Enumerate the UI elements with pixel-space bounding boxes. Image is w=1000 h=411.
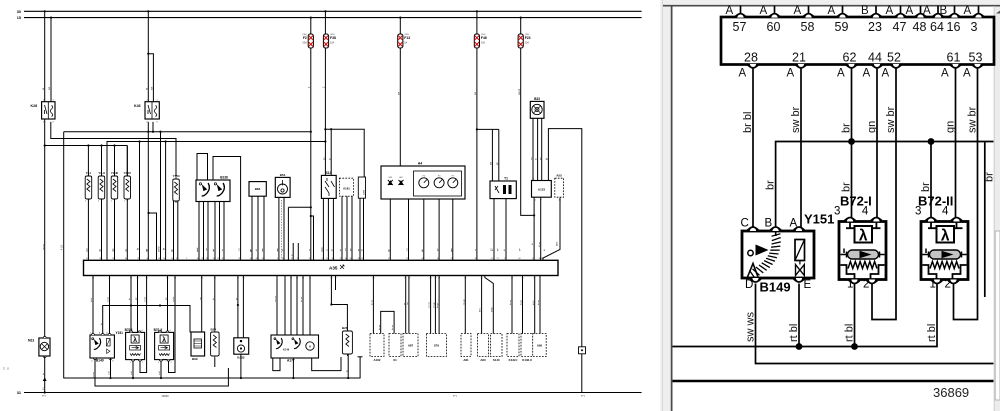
svg-text:2: 2 <box>170 362 171 364</box>
svg-text:S79: S79 <box>434 344 440 348</box>
ground connection point <box>579 347 586 354</box>
svg-text:53: 53 <box>174 278 176 280</box>
wire S79 to bar <box>429 276 440 334</box>
wire B28 to bottom run <box>345 354 349 379</box>
svg-text:H63: H63 <box>389 177 392 179</box>
connector A top pin 57 <box>726 5 747 34</box>
svg-text:31: 31 <box>17 391 21 395</box>
svg-text:M13: M13 <box>28 339 34 343</box>
svg-text:sw: sw <box>474 92 477 95</box>
wire stub 139.5 <box>137 142 140 261</box>
wire pin53 to B72-II pin2 <box>169 276 177 373</box>
connector A (control unit multi-pin connector) <box>721 17 994 65</box>
svg-text:br: br <box>100 323 103 325</box>
wire B28 to bar <box>330 276 347 332</box>
svg-text:br: br <box>765 180 777 190</box>
injector valve Y3-III <box>111 171 118 202</box>
svg-text:12: 12 <box>290 278 292 280</box>
wire Y184 to bar <box>171 201 178 260</box>
motor M13 <box>28 337 50 358</box>
wire B24 stub down <box>214 358 216 367</box>
Y151 top pins C B A <box>741 218 805 232</box>
svg-text:rt bl: rt bl <box>844 324 856 342</box>
svg-text:45: 45 <box>475 258 477 260</box>
B72-I top pins 3 4 <box>834 206 882 222</box>
wire B72-I pin1 (rt bl) <box>844 284 858 350</box>
svg-text:6: 6 <box>276 278 277 280</box>
svg-text:br ws: br ws <box>391 324 394 330</box>
schematic page divider <box>660 0 664 411</box>
connector A top pin 64 <box>923 5 944 34</box>
connector A162 <box>370 334 384 363</box>
left page background <box>0 0 660 411</box>
fuse F2 <box>302 34 313 48</box>
svg-text:S13: S13 <box>326 171 332 175</box>
svg-text:1: 1 <box>847 279 853 291</box>
switch S140 <box>491 334 503 363</box>
svg-text:5: 5 <box>322 258 323 260</box>
svg-text:3: 3 <box>332 258 333 260</box>
svg-text:58: 58 <box>350 258 352 260</box>
svg-text:A4: A4 <box>418 162 422 166</box>
wire bridge over B138 right <box>213 157 241 261</box>
wire A4 to bar <box>387 199 453 260</box>
svg-text:B24: B24 <box>211 328 217 332</box>
svg-text:2: 2 <box>505 202 506 204</box>
Y151 bottom pins D E / B149 label <box>745 278 812 295</box>
svg-text:62: 62 <box>518 258 520 260</box>
wire rt bl bottom run <box>63 357 362 379</box>
wire B72-II pin1 down <box>158 361 161 378</box>
svg-text:4: 4 <box>862 206 869 218</box>
solenoid valve + potentiometer Y151/B149 <box>742 231 814 278</box>
wire run S13 to S280 <box>324 128 365 177</box>
svg-text:52: 52 <box>146 278 148 280</box>
svg-text:48: 48 <box>158 258 160 260</box>
svg-text:4: 4 <box>141 330 142 332</box>
svg-text:MFD: MFD <box>491 307 493 312</box>
svg-text:sw: sw <box>397 92 400 95</box>
svg-text:br: br <box>535 158 538 160</box>
svg-text:21: 21 <box>792 51 806 65</box>
connector A top pin 16 <box>940 5 961 34</box>
relay K132-II <box>521 334 533 363</box>
svg-text:20: 20 <box>217 258 219 260</box>
svg-text:A162: A162 <box>374 358 381 362</box>
svg-text:sw br: sw br <box>790 106 802 133</box>
wire B132 to bar <box>235 276 244 338</box>
switch S13 <box>321 171 336 199</box>
svg-text:27: 27 <box>201 258 203 260</box>
svg-text:B: B <box>861 5 869 17</box>
wire A177 bottom stubs <box>273 357 341 378</box>
svg-text:1: 1 <box>930 279 936 291</box>
control unit bar A35 <box>84 260 559 275</box>
svg-text:sw ws: sw ws <box>429 301 431 308</box>
sensor B83 <box>249 182 266 197</box>
svg-text:34: 34 <box>302 278 304 280</box>
svg-text:F2: F2 <box>303 36 307 40</box>
svg-text:rt bl: rt bl <box>108 371 111 375</box>
throttle unit A177 <box>271 335 319 363</box>
connector A bottom pin 52 <box>882 51 902 80</box>
fuse F13 <box>398 34 411 48</box>
wire rt bl common line <box>673 284 938 347</box>
svg-text:ws gn: ws gn <box>463 299 465 305</box>
svg-text:16: 16 <box>947 20 961 34</box>
svg-text:56: 56 <box>206 258 208 260</box>
fuse F23 <box>518 34 531 48</box>
connector A top pin 58 <box>794 5 815 34</box>
svg-text:sw: sw <box>345 248 347 251</box>
wire B54 to bar shielded <box>277 197 284 260</box>
wire K46 pin to Y184 via run <box>152 122 154 133</box>
wire bus15 through F23 to A123 branch <box>518 17 535 217</box>
valve Y151 / potentiometer B149 <box>90 331 123 363</box>
wire A95 to bar <box>532 276 541 334</box>
svg-text:15: 15 <box>17 16 21 20</box>
connector A bottom pin 28 <box>739 51 759 80</box>
svg-text:20: 20 <box>361 258 363 260</box>
B72-II top pins 3 4 <box>915 206 962 222</box>
svg-text:39: 39 <box>511 278 513 280</box>
svg-text:63: 63 <box>256 258 258 260</box>
svg-text:26: 26 <box>358 258 360 260</box>
svg-text:(2B6): (2B6) <box>404 34 409 36</box>
svg-text:A: A <box>863 68 871 80</box>
svg-text:47: 47 <box>146 258 148 260</box>
svg-text:15A: 15A <box>481 42 486 45</box>
svg-text:A87: A87 <box>408 344 414 348</box>
svg-text:S280: S280 <box>363 189 365 195</box>
wire pin53 to B72-II pin2 (sw br) elbow <box>954 69 979 320</box>
svg-text:A81: A81 <box>463 358 469 362</box>
svg-text:28: 28 <box>744 51 758 65</box>
svg-text:73: 73 <box>242 278 244 280</box>
svg-text:44: 44 <box>136 278 138 280</box>
connector A161 <box>339 178 353 196</box>
svg-text:A: A <box>739 68 747 80</box>
svg-text:57: 57 <box>86 258 88 260</box>
svg-text:20: 20 <box>222 258 224 260</box>
svg-text:(2B6): (2B6) <box>481 34 486 36</box>
diagram bottom frame line <box>673 380 994 383</box>
svg-text:2: 2 <box>85 201 86 203</box>
wire br branch at right edge <box>984 142 996 298</box>
svg-text:70: 70 <box>309 258 311 260</box>
svg-text:52: 52 <box>887 51 901 65</box>
lambda probe B72-I <box>839 222 886 280</box>
svg-text:K28: K28 <box>31 104 38 108</box>
svg-text:br bl: br bl <box>532 300 535 305</box>
wire S13 to bar <box>321 198 334 260</box>
svg-text:46: 46 <box>422 258 424 260</box>
svg-text:sw: sw <box>451 248 453 251</box>
svg-text:sw: sw <box>239 248 241 251</box>
svg-text:17: 17 <box>497 258 499 260</box>
distributor B33 <box>530 97 544 118</box>
wire bridge A162 to X1 <box>378 311 394 333</box>
svg-text:21: 21 <box>108 278 110 280</box>
svg-text:gn: gn <box>945 121 957 133</box>
sensor B54 <box>275 173 290 197</box>
svg-text:57: 57 <box>533 278 535 280</box>
svg-text:62: 62 <box>130 278 132 280</box>
connector A top pin 47 <box>886 5 907 34</box>
injector valve Y3-II <box>98 171 105 202</box>
svg-text:br ws: br ws <box>371 299 374 305</box>
wire A81 to bar <box>463 276 466 334</box>
wire A63 to bar <box>479 276 483 334</box>
svg-text:4: 4 <box>942 206 949 218</box>
svg-text:sw br: sw br <box>107 297 110 302</box>
svg-text:37: 37 <box>345 258 347 260</box>
svg-text:br: br <box>221 249 224 251</box>
svg-text:br: br <box>163 248 166 250</box>
svg-text:23: 23 <box>137 258 139 260</box>
wire Y151 pin D (sw ws) to bottom run <box>745 284 994 364</box>
svg-text:A: A <box>787 68 795 80</box>
svg-text:11: 11 <box>404 278 406 280</box>
svg-text:br bl: br bl <box>742 112 754 133</box>
right zoom panel background <box>663 0 1000 411</box>
svg-text:A: A <box>923 5 931 17</box>
svg-text:sw: sw <box>151 87 154 90</box>
wire B138 to bar <box>196 202 224 261</box>
svg-text:gr: gr <box>357 249 360 251</box>
svg-text:B149: B149 <box>760 280 791 295</box>
wire K132-I to bar <box>509 276 513 334</box>
svg-text:1: 1 <box>124 177 125 179</box>
wire A162 to bar <box>371 276 375 334</box>
svg-text:br: br <box>841 182 853 192</box>
svg-text:60: 60 <box>125 258 127 260</box>
svg-text:3: 3 <box>834 206 840 218</box>
svg-text:57: 57 <box>430 278 432 280</box>
wire sw ws bottom run <box>93 358 228 386</box>
connector A63 <box>478 334 489 363</box>
svg-text:br gn: br gn <box>520 299 523 305</box>
fuse F46 <box>474 34 487 48</box>
svg-text:22: 22 <box>262 258 264 260</box>
svg-text:Y151: Y151 <box>804 212 834 227</box>
svg-text:br: br <box>491 249 494 251</box>
wire A123 over top to ground drop <box>546 129 582 393</box>
svg-text:2: 2 <box>111 201 112 203</box>
svg-text:C: C <box>741 218 749 230</box>
svg-text:Y151: Y151 <box>116 331 124 335</box>
B72-II bottom pins 1 2 <box>930 279 960 291</box>
svg-text:1: 1 <box>111 177 112 179</box>
scrollbar strip <box>994 6 1000 411</box>
svg-text:br ws: br ws <box>300 296 303 302</box>
svg-text:S140: S140 <box>493 358 500 362</box>
svg-text:39: 39 <box>434 278 436 280</box>
svg-text:27: 27 <box>291 258 293 260</box>
svg-text:H62: H62 <box>399 177 402 179</box>
wire bus30 through F38 to junction <box>323 10 327 129</box>
svg-text:2: 2 <box>863 279 869 291</box>
svg-text:br ws: br ws <box>378 324 381 330</box>
fuse F38 <box>323 34 336 48</box>
svg-text:2: 2 <box>504 258 505 260</box>
svg-text:2: 2 <box>98 201 99 203</box>
switch S79 <box>426 334 446 357</box>
connector A95 <box>533 334 547 357</box>
svg-text:2: 2 <box>297 258 298 260</box>
wire br run below bar <box>100 304 190 335</box>
svg-text:A: A <box>837 68 845 80</box>
svg-text:rt bl: rt bl <box>926 324 938 342</box>
svg-text:A: A <box>760 5 768 17</box>
svg-text:λ: λ <box>162 336 166 344</box>
connector A top pin 59 <box>828 5 849 34</box>
svg-text:B138: B138 <box>220 176 228 180</box>
wire A161 to bar <box>342 196 352 260</box>
svg-text:24: 24 <box>213 258 215 260</box>
svg-text:B69: B69 <box>192 357 198 361</box>
svg-text:X1: X1 <box>393 358 397 362</box>
wire B149 E down <box>108 358 111 378</box>
svg-text:4: 4 <box>535 200 536 202</box>
connector A top pin 48 <box>906 5 927 34</box>
svg-text:λ: λ <box>941 228 950 245</box>
svg-text:60A: 60A <box>303 42 308 45</box>
svg-text:13: 13 <box>296 278 298 280</box>
svg-text:5A: 5A <box>404 42 407 45</box>
svg-text:B149: B149 <box>96 359 104 363</box>
svg-text:M: M <box>309 345 311 349</box>
svg-text:10A: 10A <box>330 42 335 45</box>
wire A55 diagonal to bar <box>543 198 560 261</box>
svg-text:41: 41 <box>541 258 543 260</box>
connector A top pin 23 <box>861 5 882 34</box>
svg-text:1: 1 <box>493 202 494 204</box>
svg-text:13: 13 <box>464 278 466 280</box>
svg-text:7: 7 <box>540 278 541 280</box>
connector A top pin 3 <box>964 5 985 34</box>
svg-text:gr: gr <box>249 249 252 251</box>
svg-text:55: 55 <box>388 258 390 260</box>
wire pin44 to B72-I pin4 <box>136 276 139 333</box>
svg-text:43: 43 <box>408 278 410 280</box>
svg-text:54: 54 <box>372 278 374 280</box>
svg-text:16: 16 <box>171 258 173 260</box>
wire B72-II pin1 (rt bl) label <box>926 324 938 342</box>
bus 31 <box>17 391 642 398</box>
svg-text:7: 7 <box>484 278 485 280</box>
wire br distribution line <box>765 142 994 228</box>
relay K132-I <box>507 334 519 363</box>
wire B33 to A123 <box>531 118 542 180</box>
svg-text:gr: gr <box>171 249 174 251</box>
svg-text:61: 61 <box>947 51 961 65</box>
svg-text:8: 8 <box>532 258 533 260</box>
wire A177 to bar <box>275 276 311 336</box>
svg-text:31: 31 <box>521 278 523 280</box>
wire stubs mid <box>291 243 298 260</box>
svg-text:sw br: sw br <box>144 297 147 302</box>
svg-text:rt bl: rt bl <box>158 371 161 375</box>
svg-text:1: 1 <box>186 258 187 260</box>
svg-text:1: 1 <box>492 258 493 260</box>
svg-text:47: 47 <box>893 20 907 34</box>
wire K132-II to bar <box>520 276 524 334</box>
svg-text:F46: F46 <box>481 36 487 40</box>
svg-text:ABS: ABS <box>556 241 559 246</box>
svg-text:62: 62 <box>843 51 857 65</box>
svg-text:B83: B83 <box>255 187 261 191</box>
svg-text:A: A <box>906 5 914 17</box>
svg-text:K149: K149 <box>283 348 290 352</box>
wire bus15 through F13 to A4 <box>397 17 401 169</box>
svg-text:38: 38 <box>201 278 203 280</box>
svg-text:60: 60 <box>767 20 781 34</box>
svg-text:br: br <box>42 373 45 375</box>
wire jog near F2 <box>288 207 310 260</box>
sensor B132 <box>234 338 249 360</box>
wire S140 to bar with jog <box>484 276 493 334</box>
svg-text:B33: B33 <box>534 97 540 101</box>
bar A35 top pin numbers <box>86 258 543 260</box>
connector A81 <box>461 334 471 363</box>
svg-text:59: 59 <box>112 258 114 260</box>
svg-text:9: 9 <box>284 278 285 280</box>
svg-text:16: 16 <box>330 278 332 280</box>
valve Y184 <box>172 174 179 203</box>
svg-text:3: 3 <box>176 258 177 260</box>
connector A bottom pin 53 <box>963 51 983 80</box>
connector A bottom pin 44 <box>863 51 883 80</box>
svg-text:T1: T1 <box>504 177 508 181</box>
svg-text:sw bl: sw bl <box>158 246 161 252</box>
svg-text:br: br <box>137 248 140 250</box>
svg-text:br: br <box>984 172 996 182</box>
svg-text:sw: sw <box>48 87 51 90</box>
wire left margin labels <box>4 366 10 370</box>
svg-text:br ws: br ws <box>537 299 540 305</box>
injector valve Y3-IV <box>124 171 132 202</box>
wire run B (long distribution) <box>61 131 311 378</box>
wire jog pair mid <box>148 212 157 260</box>
wire branch to K46 second pin <box>147 53 153 102</box>
svg-text:sw br: sw br <box>172 297 175 302</box>
wire pin62 to B72-I pin3 <box>128 276 132 333</box>
svg-text:sw ws: sw ws <box>745 312 757 342</box>
svg-text:A: A <box>963 68 971 80</box>
svg-text:3: 3 <box>915 206 921 218</box>
svg-text:59: 59 <box>835 20 849 34</box>
svg-text:52: 52 <box>437 258 439 260</box>
wire A123 to bar <box>532 197 541 260</box>
svg-text:58: 58 <box>801 20 815 34</box>
wire stub 160.5 <box>158 131 162 261</box>
wire pin52 to B72-I pin2 <box>140 276 148 373</box>
wire pin61 to B72-II pin4 (gn) <box>945 69 957 219</box>
wire Y3-I to bar <box>87 146 89 261</box>
svg-text:13: 13 <box>451 258 453 260</box>
sensor B138 <box>196 176 230 202</box>
svg-text:sw gn: sw gn <box>434 302 436 308</box>
svg-text:53: 53 <box>969 51 983 65</box>
wire stub 165.6 <box>163 142 166 261</box>
svg-text:4 1A: 4 1A <box>61 245 64 250</box>
svg-text:(2B6): (2B6) <box>330 34 335 36</box>
pump B28 <box>342 326 352 356</box>
svg-text:23: 23 <box>868 20 882 34</box>
connector A top pin 60 <box>760 5 781 34</box>
svg-text:A: A <box>794 5 802 17</box>
